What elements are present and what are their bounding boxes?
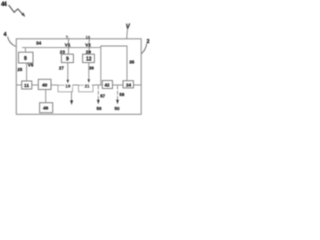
valve V2 column: wire from top edge: [88, 39, 90, 54]
svg-text:36: 36: [89, 66, 94, 71]
curved leader to outer box right edge: [141, 44, 146, 54]
svg-text:7: 7: [66, 35, 68, 39]
svg-text:12: 12: [86, 57, 92, 63]
wire: box 40 down to box 46: [45, 90, 47, 103]
svg-text:13: 13: [86, 35, 90, 39]
svg-text:57: 57: [100, 93, 105, 98]
svg-text:V2: V2: [85, 42, 91, 47]
svg-text:56: 56: [97, 106, 103, 111]
svg-text:40: 40: [42, 82, 48, 88]
wire: box 40 right: [51, 84, 58, 86]
box E (46): [40, 103, 53, 113]
svg-text:19: 19: [65, 84, 71, 89]
box F (42): [102, 81, 112, 89]
box B (40): [38, 79, 51, 89]
svg-text:35: 35: [129, 60, 135, 65]
svg-text:V6: V6: [28, 63, 34, 68]
wire: arrow down from box 19: [70, 92, 73, 105]
box D (21) below line: [79, 85, 94, 92]
valve V1 column: wire from top edge: [68, 39, 70, 54]
svg-text:58: 58: [119, 92, 124, 97]
valve box 12: [83, 54, 95, 62]
svg-text:25: 25: [17, 67, 23, 72]
zigzag leader arrow from 44: [9, 5, 25, 17]
svg-text:27: 27: [59, 66, 64, 71]
svg-text:46: 46: [43, 106, 49, 112]
label 19: [65, 83, 73, 88]
curved leader to outer box left edge: [8, 37, 16, 47]
svg-text:24: 24: [126, 82, 132, 87]
label 21: [84, 83, 92, 88]
svg-text:8: 8: [24, 56, 27, 62]
wire: box 11 to box 40: [32, 84, 39, 86]
svg-text:23: 23: [60, 49, 66, 54]
outer box (housing): [16, 39, 141, 115]
wire: valve 9 down with arrow: [67, 63, 70, 84]
inner box 35: [101, 46, 127, 85]
bus line 34: [22, 47, 101, 49]
svg-text:4: 4: [4, 32, 8, 38]
port tick 7 on top edge: [68, 37, 70, 41]
wire: box F to box G: [113, 84, 123, 86]
wire: line between box C and box D: [73, 84, 79, 86]
antenna symbol: [127, 23, 130, 38]
svg-text:9: 9: [66, 57, 69, 63]
box 8: [19, 52, 34, 63]
svg-text:44: 44: [1, 2, 8, 8]
wire: valve 12 down with arrow: [88, 63, 91, 84]
svg-text:42: 42: [105, 83, 111, 88]
svg-text:29: 29: [86, 49, 92, 54]
svg-text:50: 50: [115, 106, 121, 111]
box G (24): [123, 81, 134, 88]
box A (11): [22, 81, 32, 89]
svg-text:21: 21: [85, 84, 91, 89]
box C (19) below line: [58, 85, 73, 92]
port tick 13 on top edge: [88, 37, 90, 41]
svg-text:34: 34: [36, 41, 42, 47]
wire: line from box D to box F: [93, 84, 102, 86]
wire: box 8 down to box 11: [26, 63, 28, 81]
wire: outer left edge to box 11: [16, 84, 21, 86]
wire: arrow down 50: [116, 85, 119, 104]
svg-text:V1: V1: [65, 42, 71, 47]
wire: drop from bus to box 8: [24, 48, 26, 53]
valve box 9: [61, 54, 73, 62]
wire: box G to outer right edge: [134, 84, 142, 86]
wire: arrow down 56: [97, 85, 100, 104]
svg-text:11: 11: [24, 83, 29, 89]
